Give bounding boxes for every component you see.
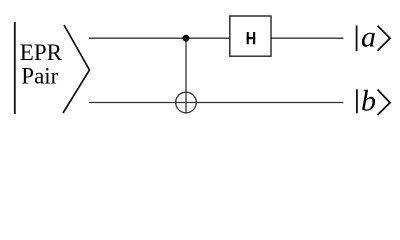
- svg-text:a: a: [361, 21, 376, 54]
- Hadamard gate H box: [230, 16, 271, 56]
- svg-text:b: b: [361, 84, 376, 117]
- wire top qubit a, left segment: [89, 37, 230, 39]
- svg-text:Pair: Pair: [21, 64, 58, 89]
- Hadamard gate H letter: [247, 32, 256, 44]
- CNOT target circle (XOR): [176, 92, 197, 113]
- output ket angle bracket of |b>: [378, 90, 391, 116]
- output ket bar |a: [356, 26, 358, 52]
- ket angle bracket of |EPR Pair>: [63, 25, 90, 113]
- wire top qubit a, right segment: [271, 37, 344, 39]
- svg-text:EPR: EPR: [20, 40, 63, 65]
- CNOT control dot: [183, 35, 190, 42]
- CNOT vertical link: [185, 38, 187, 112]
- wire bottom qubit b: [89, 102, 344, 104]
- output ket bar |b: [356, 89, 358, 113]
- output ket angle bracket of |a>: [378, 26, 391, 51]
- ket bar of |EPR Pair>: [14, 22, 16, 114]
